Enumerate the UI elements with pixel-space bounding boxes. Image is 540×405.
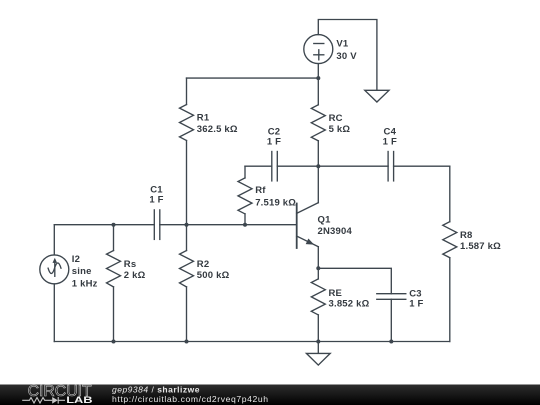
resistor RE bbox=[311, 268, 325, 341]
current source I2 bbox=[40, 225, 69, 342]
wire bottom rail bbox=[54, 341, 450, 343]
node at V1 bottom bbox=[316, 76, 320, 80]
svg-text:1 F: 1 F bbox=[267, 136, 281, 147]
wire emitter row bbox=[318, 268, 391, 293]
svg-text:7.519 kΩ: 7.519 kΩ bbox=[255, 198, 296, 209]
svg-text:362.5 kΩ: 362.5 kΩ bbox=[197, 124, 238, 135]
svg-text:R1: R1 bbox=[197, 113, 210, 124]
wire V1 bottom to node bbox=[317, 64, 319, 79]
svg-text:I2: I2 bbox=[72, 254, 80, 265]
svg-text:gep9384 / sharlizwe: gep9384 / sharlizwe bbox=[112, 384, 200, 394]
voltage source V1 bbox=[304, 35, 333, 64]
wire R1 row bbox=[187, 77, 319, 79]
svg-text:Rs: Rs bbox=[124, 259, 137, 270]
wire V1 top to top-right corner bbox=[318, 20, 377, 91]
transistor Q1 bbox=[297, 166, 319, 268]
svg-text:RE: RE bbox=[329, 288, 343, 299]
svg-text:5 kΩ: 5 kΩ bbox=[329, 124, 351, 135]
node at Rs top bbox=[112, 223, 116, 227]
svg-text:1 F: 1 F bbox=[149, 194, 163, 205]
ground bottom bbox=[306, 342, 330, 366]
resistor Rf bbox=[238, 166, 252, 225]
svg-text:1 F: 1 F bbox=[383, 136, 397, 147]
svg-text:R8: R8 bbox=[460, 230, 473, 241]
node at R2 bottom bbox=[185, 340, 189, 344]
resistor R1 bbox=[180, 78, 194, 225]
svg-text:http://circuitlab.com/cd2rveq7: http://circuitlab.com/cd2rveq7p42uh bbox=[112, 394, 269, 404]
capacitor C1 bbox=[154, 210, 160, 240]
capacitor C2 bbox=[245, 152, 318, 181]
wire C1 to Q1 base bbox=[160, 224, 297, 226]
node at R2 top bbox=[185, 223, 189, 227]
node at collector row bbox=[316, 164, 320, 168]
node at ground bbox=[316, 340, 320, 344]
svg-text:Q1: Q1 bbox=[318, 214, 332, 225]
svg-text:RC: RC bbox=[329, 113, 343, 124]
svg-text:500 kΩ: 500 kΩ bbox=[197, 270, 230, 281]
svg-text:LAB: LAB bbox=[66, 396, 92, 405]
svg-text:3.852 kΩ: 3.852 kΩ bbox=[329, 299, 370, 310]
svg-text:V1: V1 bbox=[336, 39, 349, 50]
capacitor C3 bbox=[377, 294, 406, 342]
wire base row bbox=[54, 224, 154, 226]
svg-text:1 F: 1 F bbox=[409, 299, 423, 310]
svg-text:Rf: Rf bbox=[255, 185, 266, 196]
node at Rs bottom bbox=[112, 340, 116, 344]
ground top-right bbox=[365, 90, 389, 102]
svg-text:2 kΩ: 2 kΩ bbox=[124, 270, 146, 281]
svg-text:R2: R2 bbox=[197, 259, 210, 270]
svg-text:30 V: 30 V bbox=[336, 51, 357, 62]
node at C3 bottom bbox=[389, 340, 393, 344]
node at Rf bottom bbox=[243, 223, 247, 227]
svg-text:1 kHz: 1 kHz bbox=[72, 279, 98, 290]
resistor Rs bbox=[107, 225, 121, 342]
svg-text:2N3904: 2N3904 bbox=[318, 226, 353, 237]
svg-text:sine: sine bbox=[72, 266, 92, 277]
svg-text:1.587 kΩ: 1.587 kΩ bbox=[460, 241, 501, 252]
capacitor C4 bbox=[318, 152, 450, 181]
logo squiggle resistor-diode bbox=[22, 397, 65, 404]
resistor RC bbox=[311, 78, 325, 166]
resistor R8 bbox=[443, 166, 457, 341]
node at emitter bbox=[316, 266, 320, 270]
resistor R2 bbox=[180, 225, 194, 342]
